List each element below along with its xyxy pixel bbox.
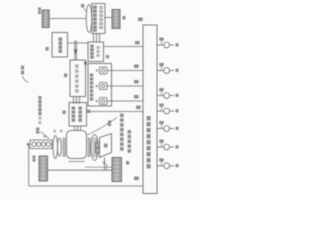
ECU box bbox=[143, 25, 157, 194]
ECU output branch 6 bbox=[157, 143, 174, 150]
disc bars right bbox=[88, 138, 90, 158]
wires MG1 to inverter bbox=[94, 34, 100, 43]
label 24 bbox=[84, 62, 87, 65]
ellipse differential front bbox=[86, 5, 92, 33]
label 50 bbox=[138, 18, 143, 22]
ECU output branch 1 bbox=[157, 41, 174, 48]
flywheel ellipse pair bbox=[53, 136, 58, 159]
ECU output branch 4 bbox=[157, 107, 174, 114]
label 46 bbox=[136, 106, 141, 110]
ECU output branch 3 bbox=[157, 91, 174, 98]
label 52 bbox=[135, 41, 140, 44]
sensor name text column bbox=[120, 114, 131, 153]
label 44 bbox=[126, 161, 129, 165]
power bus vertical bbox=[75, 41, 77, 61]
battery box bbox=[52, 33, 68, 58]
wire inverter to ECU bbox=[104, 46, 144, 48]
label 70 bbox=[108, 121, 111, 127]
wires box B to engine bbox=[75, 126, 81, 131]
rear axle bbox=[48, 169, 113, 171]
arrowhead on bus bbox=[74, 50, 78, 55]
engine barrel bbox=[67, 131, 87, 159]
sensor group box bbox=[88, 64, 112, 107]
shift lever trapezoid bbox=[100, 134, 112, 158]
box motor-generator MG1 bbox=[92, 4, 105, 34]
motor box B bbox=[69, 103, 87, 127]
wire front axle left bbox=[49, 18, 86, 20]
sensor unit 1 bbox=[96, 67, 107, 74]
wheel front-left bbox=[42, 10, 49, 28]
label 38 left wheel bbox=[38, 8, 41, 15]
ECU output branch 7 bbox=[157, 161, 174, 168]
wire battery to bus bbox=[68, 42, 89, 44]
junction tick bbox=[106, 164, 108, 171]
motor ellipse right bbox=[91, 135, 98, 161]
sensor unit 2 bbox=[96, 83, 107, 90]
label 26 bbox=[106, 55, 109, 58]
label 12 bbox=[46, 47, 49, 51]
clutch disc bars bbox=[63, 138, 65, 158]
sensor unit 3 bbox=[96, 98, 107, 105]
sensor wires to ECU bbox=[107, 71, 143, 102]
label 48 bbox=[134, 177, 139, 181]
label 22 bbox=[64, 74, 67, 78]
ECU output branch 5 bbox=[157, 124, 174, 131]
ECU output branch 2 bbox=[157, 66, 174, 73]
wire lever to axle bbox=[104, 158, 106, 171]
wheel front-right bbox=[112, 10, 120, 29]
labels 54 56 58 bbox=[134, 65, 139, 99]
wire front axle right bbox=[105, 17, 112, 19]
bottom bus wire bbox=[29, 185, 143, 187]
label 10 with arrow bbox=[21, 66, 24, 75]
wire box B to ECU bbox=[90, 111, 143, 113]
small labels on gear train bbox=[54, 130, 63, 133]
converter box A bbox=[70, 60, 86, 97]
label 40 bbox=[33, 156, 36, 162]
label 20 bbox=[63, 111, 66, 115]
inverter box bbox=[88, 42, 104, 62]
arrow into damper bbox=[27, 143, 30, 146]
damper bbox=[30, 140, 52, 149]
wheel rear-right bbox=[112, 158, 122, 182]
label 34 bbox=[81, 4, 84, 8]
leader curve bbox=[87, 118, 117, 136]
wheel rear-left bbox=[39, 156, 48, 181]
wire damper loop left bbox=[28, 144, 30, 186]
wires box A to box B bbox=[74, 97, 80, 105]
engine name vertical label bbox=[38, 96, 46, 138]
label 36 right wheel bbox=[123, 16, 126, 20]
pivot boxes bbox=[96, 143, 100, 148]
label 16 with pointer bbox=[36, 128, 39, 134]
node on box B bbox=[87, 110, 90, 113]
